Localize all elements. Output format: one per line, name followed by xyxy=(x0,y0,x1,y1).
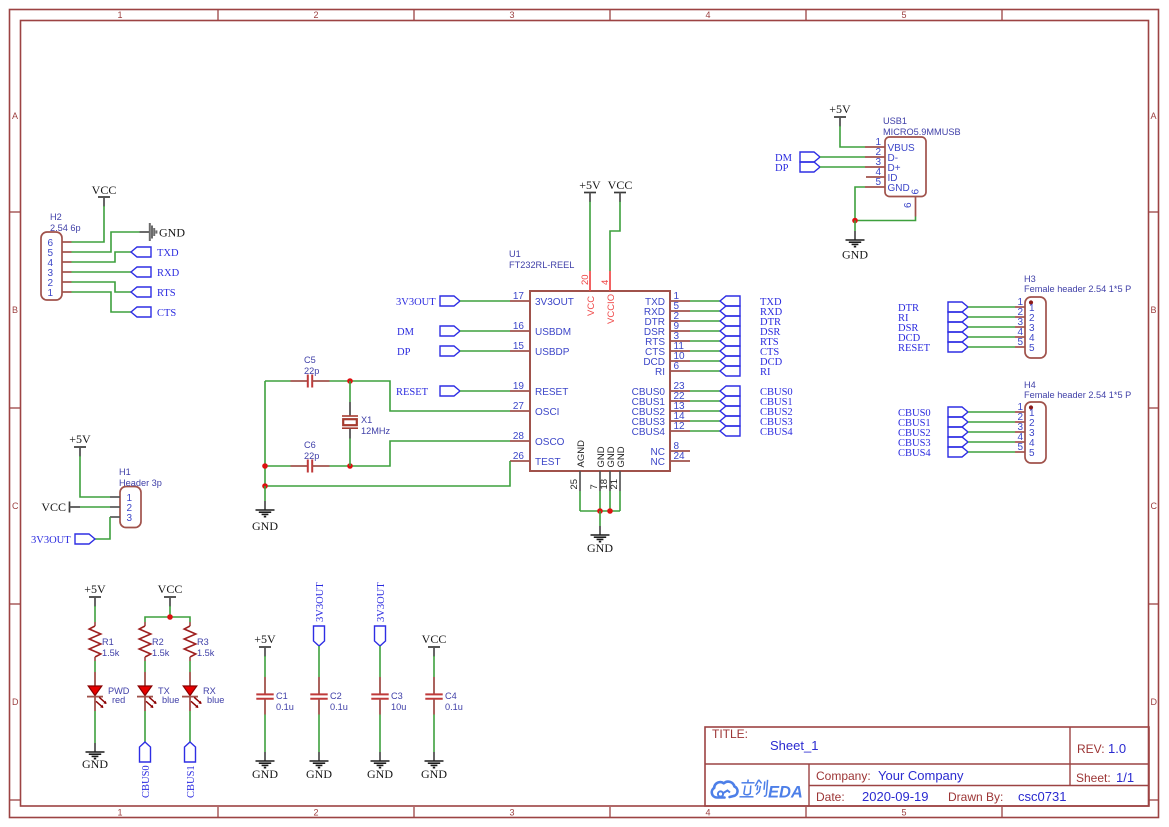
H4 inside pin numbers xyxy=(1029,408,1035,459)
svg-text:TITLE:: TITLE: xyxy=(712,727,748,741)
resistor R3 xyxy=(184,622,196,661)
svg-text:RI: RI xyxy=(760,367,771,378)
netflag RXD right xyxy=(720,306,740,316)
frame column numbers top xyxy=(117,10,906,20)
svg-text:22p: 22p xyxy=(304,366,319,376)
USB1 pin numbers 1-5 xyxy=(875,137,881,188)
svg-text:2.54 6p: 2.54 6p xyxy=(50,223,81,233)
header H2 body xyxy=(41,232,62,300)
capacitor C3 xyxy=(371,677,388,715)
svg-text:Female header 2.54 1*5 P: Female header 2.54 1*5 P xyxy=(1024,390,1131,400)
wires U1 right pins to flags xyxy=(690,301,720,431)
netflag RESET at H3 xyxy=(948,342,968,352)
capacitor C1 xyxy=(256,677,273,715)
svg-text:CBUS4: CBUS4 xyxy=(898,448,931,459)
H3 inside pin numbers xyxy=(1029,303,1035,354)
svg-text:B: B xyxy=(1151,305,1157,315)
wire VCC split to R2 R3 xyxy=(145,617,190,622)
title block outline xyxy=(705,727,1149,806)
svg-text:1.0: 1.0 xyxy=(1108,741,1126,756)
title block divider horizontal company/date xyxy=(809,785,1149,787)
svg-text:3: 3 xyxy=(127,513,133,524)
H3 pin1 marker dot xyxy=(1029,300,1033,304)
USB1 pin 3 stub xyxy=(865,166,885,168)
svg-text:3V3OUT: 3V3OUT xyxy=(396,297,436,308)
svg-text:REV:: REV: xyxy=(1077,742,1105,756)
wire left rail C5 to C6 to TEST xyxy=(264,381,266,486)
svg-text:MICRO5.9MMUSB: MICRO5.9MMUSB xyxy=(883,127,961,137)
wire C1 to ground xyxy=(264,715,266,753)
svg-text:GND: GND xyxy=(842,248,868,262)
svg-text:GND: GND xyxy=(367,767,393,781)
wire +5V to USB1 pin1 xyxy=(840,126,865,147)
frame row letters left xyxy=(12,111,19,707)
VCC power symbol above C4 xyxy=(428,647,440,657)
svg-text:4: 4 xyxy=(705,808,710,818)
VCC power symbol above R2 R3 xyxy=(164,597,176,607)
svg-text:1.5k: 1.5k xyxy=(152,648,170,658)
netflag CBUS2 at H4 xyxy=(948,427,968,437)
svg-text:C2: C2 xyxy=(330,691,342,701)
netflag CBUS1 right xyxy=(720,396,740,406)
netflag CBUS3 right xyxy=(720,416,740,426)
svg-text:A: A xyxy=(1151,111,1157,121)
svg-text:+5V: +5V xyxy=(829,102,851,116)
wire H2 pin3 to RXD flag xyxy=(72,271,132,273)
netflag DSR at H3 xyxy=(948,322,968,332)
wire VCC to H1 pin2 xyxy=(80,506,110,508)
wire U1 GND pin21 down xyxy=(619,491,621,511)
ground symbol below USB1 xyxy=(846,231,865,247)
svg-text:+5V: +5V xyxy=(84,582,106,596)
VCC power symbol above H2 xyxy=(98,197,110,207)
netflag DP at U1 xyxy=(440,346,460,356)
frame row ticks right xyxy=(1148,212,1158,800)
+5V power symbol above R1 xyxy=(89,597,101,607)
svg-text:H2: H2 xyxy=(50,212,62,222)
svg-text:15: 15 xyxy=(513,341,525,352)
netflag CBUS0 right xyxy=(720,386,740,396)
junction crystal bottom xyxy=(347,463,353,469)
wire DM to USB1 pin2 xyxy=(820,156,865,158)
svg-text:C5: C5 xyxy=(304,355,316,365)
svg-text:1: 1 xyxy=(117,808,122,818)
wire U1 OSCO to crystal xyxy=(350,441,510,466)
svg-text:R3: R3 xyxy=(197,637,209,647)
resistor R1 xyxy=(89,622,101,661)
svg-text:5: 5 xyxy=(875,177,881,188)
svg-text:A: A xyxy=(12,111,18,121)
H1 pin 1 stub xyxy=(110,496,120,498)
svg-text:RTS: RTS xyxy=(157,288,176,299)
svg-text:GND: GND xyxy=(421,767,447,781)
wire +5V to R1 xyxy=(94,606,96,622)
ground symbol (horizontal) at H2 xyxy=(140,223,157,241)
VCC power symbol above U1 xyxy=(614,193,626,203)
VCC power symbol (horizontal) at H1 pin2 xyxy=(70,502,81,513)
USB1 pin names VBUS D- D+ ID GND xyxy=(888,143,916,194)
H4 pin1 marker dot xyxy=(1029,405,1033,409)
junction U1 gnd a xyxy=(597,508,603,514)
svg-text:OSCO: OSCO xyxy=(535,437,565,448)
svg-text:RI: RI xyxy=(655,367,665,378)
netflag DM at USB1 xyxy=(800,152,820,162)
wire U1 ground down xyxy=(599,511,601,526)
H3 pin stubs xyxy=(1015,307,1025,347)
wire U1 ground bus xyxy=(580,510,620,512)
netflag CBUS4 at H4 xyxy=(948,447,968,457)
wire rail to ground xyxy=(264,486,266,501)
wire VCC to U1 VCCIO pin xyxy=(610,202,620,272)
capacitor C2 xyxy=(310,677,327,715)
svg-text:CTS: CTS xyxy=(157,308,176,319)
svg-text:RESET: RESET xyxy=(396,387,429,398)
netflag DM at U1 xyxy=(440,326,460,336)
H2 pin 6 stub xyxy=(62,241,72,243)
capacitor C6 xyxy=(291,460,330,473)
svg-text:3V3OUT: 3V3OUT xyxy=(376,582,387,622)
wire +5V to C1 xyxy=(264,656,266,677)
svg-text:12: 12 xyxy=(674,421,686,432)
svg-text:GND: GND xyxy=(587,541,613,555)
netflag RTS xyxy=(131,287,151,297)
ground symbol below C2 xyxy=(310,752,329,768)
netflag CBUS4 right xyxy=(720,426,740,436)
svg-text:3: 3 xyxy=(509,10,514,20)
svg-text:VCC: VCC xyxy=(41,500,66,514)
H2 pin 5 stub xyxy=(62,251,72,253)
netflag 3V3OUT above C3 xyxy=(375,626,386,646)
ground symbol below crystal rail xyxy=(256,501,275,517)
svg-text:5: 5 xyxy=(1029,343,1035,354)
U1 right pin stubs xyxy=(670,301,690,461)
wire 3V3OUT to C3 xyxy=(379,646,381,677)
svg-text:4: 4 xyxy=(600,280,611,285)
capacitor C4 xyxy=(425,677,442,715)
svg-text:H1: H1 xyxy=(119,467,131,477)
wire LED RX to CBUS1 flag xyxy=(189,711,191,742)
U1 pin 4 VCCIO stub (top) xyxy=(609,271,611,291)
svg-text:16: 16 xyxy=(513,321,525,332)
svg-text:5: 5 xyxy=(1029,448,1035,459)
svg-text:Sheet:: Sheet: xyxy=(1076,771,1111,785)
frame column ticks bottom xyxy=(218,807,1002,817)
svg-text:Drawn By:: Drawn By: xyxy=(948,790,1003,804)
svg-text:OSCI: OSCI xyxy=(535,407,559,418)
LED PWD xyxy=(87,672,107,711)
netflag DCD right xyxy=(720,356,740,366)
junction crystal top xyxy=(347,378,353,384)
junction left rail TEST xyxy=(262,483,268,489)
capacitor C5 xyxy=(291,375,330,388)
frame column ticks top xyxy=(218,10,1002,20)
svg-text:VCCIO: VCCIO xyxy=(606,294,617,324)
svg-text:GND: GND xyxy=(159,226,185,240)
svg-text:VCC: VCC xyxy=(92,183,117,197)
wire CBUS4 to H4 pin5 xyxy=(968,451,1015,453)
wire U1 AGND pin25 down xyxy=(579,491,581,511)
ground symbol below U1 xyxy=(591,526,610,542)
netflag CBUS1 at H4 xyxy=(948,417,968,427)
U1 left pin names xyxy=(535,297,574,468)
wire +5V to U1 VCC pin xyxy=(589,202,591,272)
ground symbol below C3 xyxy=(371,752,390,768)
wire +5V to H1 pin1 xyxy=(80,456,110,497)
svg-text:Female header 2.54 1*5 P: Female header 2.54 1*5 P xyxy=(1024,284,1131,294)
wire LED PWD to ground xyxy=(94,711,96,743)
wire 3V3OUT to C2 xyxy=(318,646,320,677)
svg-text:DP: DP xyxy=(397,347,411,358)
USB1 pin 1 stub xyxy=(865,146,885,148)
svg-text:12MHz: 12MHz xyxy=(361,426,391,436)
svg-text:blue: blue xyxy=(207,695,224,705)
wire USB1 pin5 to ground xyxy=(855,187,865,221)
H2 pin numbers 6,5,4,3,2,1 xyxy=(48,238,54,299)
svg-text:USBDM: USBDM xyxy=(535,327,571,338)
header H1 body xyxy=(120,487,141,528)
wire 3V3OUT to U1 pin17 xyxy=(460,300,510,302)
logo glyph chuang xyxy=(755,780,767,796)
wire DM to U1 pin16 xyxy=(460,330,510,332)
svg-text:26: 26 xyxy=(513,451,525,462)
wire DCD to H3 pin4 xyxy=(968,336,1015,338)
H4 outside pin numbers xyxy=(1017,402,1023,453)
wire R1 to LED PWD xyxy=(94,661,96,672)
wire U1 OSCI to crystal xyxy=(350,381,510,411)
svg-text:C: C xyxy=(1151,501,1158,511)
USB1 pin 2 stub xyxy=(865,156,885,158)
wire CBUS2 to H4 pin3 xyxy=(968,431,1015,433)
wire CBUS0 to H4 pin1 xyxy=(968,411,1015,413)
netflag RXD xyxy=(131,267,151,277)
svg-text:R2: R2 xyxy=(152,637,164,647)
svg-text:TEST: TEST xyxy=(535,457,561,468)
U1 bottom pin stubs 25,7,18,21 xyxy=(580,471,620,491)
svg-text:DP: DP xyxy=(775,163,789,174)
U1 pin 20 VCC stub (top) xyxy=(589,271,591,291)
svg-text:GND: GND xyxy=(252,519,278,533)
svg-text:28: 28 xyxy=(513,431,525,442)
svg-text:19: 19 xyxy=(513,381,525,392)
EasyEDA logo link xyxy=(723,791,730,794)
svg-text:D: D xyxy=(12,697,19,707)
svg-text:1.5k: 1.5k xyxy=(102,648,120,658)
wire H2 pin4 to TXD flag xyxy=(72,252,132,262)
netflag RI at H3 xyxy=(948,312,968,322)
wire R3 to LED RX xyxy=(189,661,191,672)
svg-text:NC: NC xyxy=(651,457,665,468)
USB1 pin 6 stub (bottom) xyxy=(915,197,917,217)
svg-text:DM: DM xyxy=(397,327,415,338)
wire H1 pin3 to 3V3OUT flag xyxy=(95,517,110,539)
junction at USB ground xyxy=(852,218,858,224)
junction left rail C6 xyxy=(262,463,268,469)
netflag RI right xyxy=(720,366,740,376)
H3 outside pin numbers xyxy=(1017,297,1023,348)
LED TX xyxy=(137,672,157,711)
wire VCC to C4 xyxy=(433,656,435,677)
svg-text:C3: C3 xyxy=(391,691,403,701)
svg-text:1: 1 xyxy=(48,288,54,299)
wire crystal top xyxy=(349,381,351,402)
svg-text:17: 17 xyxy=(513,291,525,302)
svg-text:GND: GND xyxy=(306,767,332,781)
wire H2 pin6 to VCC xyxy=(72,206,105,242)
svg-text:25: 25 xyxy=(569,479,580,490)
svg-text:Company:: Company: xyxy=(816,769,871,783)
svg-text:6: 6 xyxy=(903,202,914,208)
EasyEDA logo wheel xyxy=(718,791,723,796)
svg-text:AGND: AGND xyxy=(576,440,587,468)
USB1 pin 5 stub xyxy=(865,186,885,188)
header H4 body xyxy=(1025,402,1046,463)
H2 pin 2 stub xyxy=(62,281,72,283)
svg-text:3V3OUT: 3V3OUT xyxy=(31,535,71,546)
wire USB1 pin6 to ground xyxy=(855,217,916,221)
wire H2 pin1 to CTS flag xyxy=(72,292,132,312)
frame column numbers bottom xyxy=(117,808,906,818)
svg-text:B: B xyxy=(12,305,18,315)
svg-text:0.1u: 0.1u xyxy=(445,702,463,712)
svg-text:TXD: TXD xyxy=(157,248,179,259)
svg-text:R1: R1 xyxy=(102,637,114,647)
svg-text:3V3OUT: 3V3OUT xyxy=(315,582,326,622)
title block divider vertical REV xyxy=(1069,727,1071,786)
netflag DTR at H3 xyxy=(948,302,968,312)
netflag CTS xyxy=(131,307,151,317)
netflag CBUS1 below LED RX xyxy=(185,742,196,762)
netflag TXD xyxy=(131,247,151,257)
wire RI to H3 pin2 xyxy=(968,316,1015,318)
svg-text:5: 5 xyxy=(901,10,906,20)
frame row letters right xyxy=(1151,111,1158,707)
svg-text:VCC: VCC xyxy=(422,632,447,646)
wire junction down xyxy=(854,221,856,232)
wire C3 to ground xyxy=(379,715,381,753)
crystal X1 xyxy=(342,402,358,439)
svg-text:RXD: RXD xyxy=(157,268,180,279)
svg-text:5: 5 xyxy=(901,808,906,818)
netflag DSR right xyxy=(720,326,740,336)
svg-text:GND: GND xyxy=(82,757,108,771)
connector USB1 body xyxy=(885,137,926,197)
svg-text:10u: 10u xyxy=(391,702,406,712)
svg-text:VCC: VCC xyxy=(586,296,597,316)
svg-text:GND: GND xyxy=(888,183,910,194)
wire DTR to H3 pin1 xyxy=(968,306,1015,308)
svg-text:GND: GND xyxy=(252,767,278,781)
svg-text:+5V: +5V xyxy=(69,432,91,446)
svg-text:RESET: RESET xyxy=(898,343,931,354)
svg-text:Header 3p: Header 3p xyxy=(119,478,162,488)
ground symbol below C4 xyxy=(425,752,444,768)
H2 pin 1 stub xyxy=(62,291,72,293)
wire H2 pin2 to RTS flag xyxy=(72,282,132,292)
USB1 pin 4 stub xyxy=(866,176,885,178)
wire U1 TEST to ground rail xyxy=(265,461,510,486)
netflag DTR right xyxy=(720,316,740,326)
wire U1 GND pin18 down xyxy=(609,491,611,511)
svg-text:Date:: Date: xyxy=(816,790,845,804)
U1 left pin numbers xyxy=(513,291,525,462)
svg-text:0.1u: 0.1u xyxy=(330,702,348,712)
svg-text:2: 2 xyxy=(313,10,318,20)
U1 left pin stubs 17,16,15,19,27,28,26 xyxy=(510,301,530,461)
svg-text:FT232RL-REEL: FT232RL-REEL xyxy=(509,260,574,270)
wire RESET to U1 pin19 xyxy=(460,390,510,392)
svg-text:5: 5 xyxy=(1017,442,1023,453)
H1 pin 2 stub xyxy=(110,506,120,508)
+5V power symbol above C1 xyxy=(259,647,271,657)
wire crystal bottom xyxy=(349,439,351,467)
svg-text:H4: H4 xyxy=(1024,380,1036,390)
svg-text:VCC: VCC xyxy=(158,582,183,596)
netflag CBUS2 right xyxy=(720,406,740,416)
wire U1 GND pin7 down xyxy=(599,491,601,511)
svg-text:X1: X1 xyxy=(361,415,372,425)
resistor R2 xyxy=(139,622,151,661)
svg-text:CBUS4: CBUS4 xyxy=(632,427,666,438)
svg-text:CBUS4: CBUS4 xyxy=(760,427,793,438)
svg-text:EDA: EDA xyxy=(768,784,803,802)
netflag CBUS0 at H4 xyxy=(948,407,968,417)
wire C6 right xyxy=(330,465,351,467)
svg-text:C1: C1 xyxy=(276,691,288,701)
wire DP to U1 pin15 xyxy=(460,350,510,352)
wire R2 to LED TX xyxy=(144,661,146,672)
header H3 body xyxy=(1025,297,1046,358)
netflag 3V3OUT above C2 xyxy=(314,626,325,646)
LED RX xyxy=(182,672,202,711)
svg-text:1/1: 1/1 xyxy=(1116,770,1134,785)
svg-text:red: red xyxy=(112,695,125,705)
svg-text:1: 1 xyxy=(117,10,122,20)
svg-text:6: 6 xyxy=(674,361,680,372)
svg-text:1.5k: 1.5k xyxy=(197,648,215,658)
svg-text:4: 4 xyxy=(705,10,710,20)
wire C5 right xyxy=(330,380,351,382)
svg-text:GND: GND xyxy=(616,446,627,467)
logo glyph li xyxy=(740,780,755,797)
netflag RESET at U1 xyxy=(440,386,460,396)
svg-text:22p: 22p xyxy=(304,451,319,461)
svg-text:21: 21 xyxy=(609,479,620,490)
netflag DCD at H3 xyxy=(948,332,968,342)
svg-text:VCC: VCC xyxy=(608,178,633,192)
H1 pin 3 stub xyxy=(110,516,120,518)
svg-text:+5V: +5V xyxy=(254,632,276,646)
H4 pin stubs xyxy=(1015,412,1025,452)
U1 right pin numbers xyxy=(674,291,686,462)
svg-text:Sheet_1: Sheet_1 xyxy=(770,738,818,753)
junction U1 gnd b xyxy=(607,508,613,514)
netflag 3V3OUT at H1 xyxy=(75,534,95,544)
+5V power symbol above H1 xyxy=(74,447,86,457)
svg-text:RESET: RESET xyxy=(535,387,568,398)
svg-text:2: 2 xyxy=(313,808,318,818)
wire VCC down xyxy=(169,606,171,617)
wire CBUS1 to H4 pin2 xyxy=(968,421,1015,423)
junction VCC split xyxy=(167,614,173,620)
netflag DP at USB1 xyxy=(800,162,820,172)
svg-text:2020-09-19: 2020-09-19 xyxy=(862,789,929,804)
netflag CBUS3 at H4 xyxy=(948,437,968,447)
netflag CTS right xyxy=(720,346,740,356)
svg-text:USB1: USB1 xyxy=(883,116,907,126)
svg-text:C6: C6 xyxy=(304,440,316,450)
svg-text:H3: H3 xyxy=(1024,274,1036,284)
svg-text:3: 3 xyxy=(509,808,514,818)
